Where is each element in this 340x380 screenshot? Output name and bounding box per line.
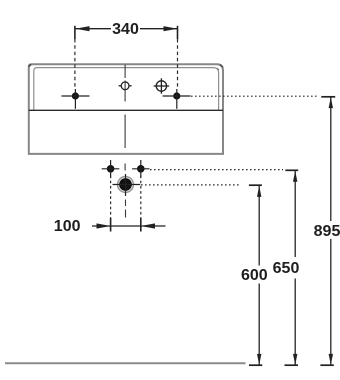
dim 340 [75,21,178,39]
svg-text:650: 650 [273,260,300,277]
floor line [5,362,246,364]
center hole circle [119,82,132,90]
svg-text:340: 340 [112,21,139,38]
dotted leader drain to 600 [141,184,240,186]
dim 100 [54,218,166,235]
drain hole [113,174,141,196]
bottom fixing holes [102,160,150,178]
ext line left [74,39,76,90]
right tap hole [163,89,191,109]
dotted leader fixings to 650 [150,169,283,171]
svg-text:600: 600 [241,267,268,284]
svg-text:895: 895 [314,223,340,240]
basin outer outline [29,64,223,154]
centerline below drain [125,200,127,218]
left tap hole [62,89,90,109]
ext line right [177,39,179,90]
basin front edge divider [29,109,223,111]
svg-text:100: 100 [54,218,81,235]
corner accents [29,64,32,66]
dotted leader tap to 895 [191,95,318,97]
dim 895 [314,97,340,365]
dim 650 [273,170,300,365]
ext lines 100 [111,176,141,223]
crosshair hole [154,78,169,93]
centerline vertical [124,65,126,171]
dim 600 [241,185,268,365]
basin inner rim line [34,68,219,111]
